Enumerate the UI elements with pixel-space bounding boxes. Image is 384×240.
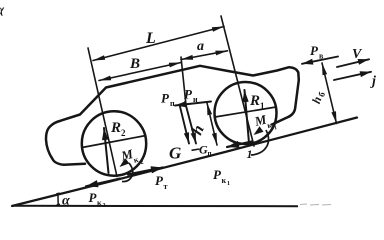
rear wheel [82,111,146,175]
dimension h_v [322,63,337,124]
force P_t [128,168,163,175]
svg-text:P: P [161,91,170,106]
svg-text:2: 2 [140,160,144,167]
rear axle chord [82,136,146,148]
svg-text:G: G [169,144,182,163]
svg-text:L: L [145,30,156,47]
svg-text:т: т [164,182,168,191]
right extension line [221,16,254,146]
ground baseline [13,205,298,207]
svg-text:к: к [133,155,140,165]
svg-text:R: R [110,120,121,136]
moment M_k2 arrow [120,158,130,167]
moment M_k1 label [252,110,278,136]
moment M_k2 label [119,144,145,170]
svg-text:1: 1 [273,125,277,132]
angle arc tick [56,193,60,205]
force P_v (air drag) [302,57,338,64]
svg-text:2: 2 [103,203,106,209]
svg-text:R: R [249,93,260,109]
left extension line [88,48,117,177]
force P_k1 [227,142,252,148]
middle extension line through CG [181,57,186,105]
svg-text:α: α [62,194,70,209]
svg-text:и: и [193,95,198,104]
svg-text:α: α [0,1,5,20]
svg-text:к: к [222,176,227,185]
front wheel [215,82,277,144]
force P_p line through CG (arrow left) [175,102,211,106]
svg-text:б: б [316,90,327,98]
svg-text:h: h [189,122,208,137]
acceleration j arrow [334,72,371,80]
svg-text:1: 1 [227,181,230,187]
force arrow G (down) [180,105,190,144]
velocity V arrow [337,59,369,67]
force P_k2 [86,179,120,187]
dimension h [207,103,217,145]
svg-text:1: 1 [260,101,265,111]
label h rotated [189,122,208,137]
dimension a [181,51,228,60]
faint scan marks bottom right [300,204,331,205]
car body outline [46,66,299,165]
svg-text:B: B [129,56,140,72]
force arrow G_p (down) [185,102,196,144]
road incline line [12,118,357,207]
label h_v rotated [309,89,327,106]
dimension B [99,63,181,81]
svg-text:1: 1 [247,147,253,161]
moment M_k1 arrow [254,126,264,135]
svg-text:j: j [370,74,376,89]
svg-text:a: a [197,39,204,54]
small bar at G arrows [192,149,200,150]
dimension L [93,27,224,61]
front axle chord [215,107,276,117]
svg-text:в: в [319,52,324,61]
reaction R1 [245,90,250,143]
svg-text:M: M [252,111,268,129]
svg-text:к: к [97,199,102,208]
svg-text:п: п [208,150,212,158]
reaction R2 [104,128,109,173]
svg-text:п: п [170,99,175,108]
svg-text:2: 2 [121,128,126,138]
svg-text:P: P [184,87,193,102]
svg-text:P: P [310,43,319,58]
